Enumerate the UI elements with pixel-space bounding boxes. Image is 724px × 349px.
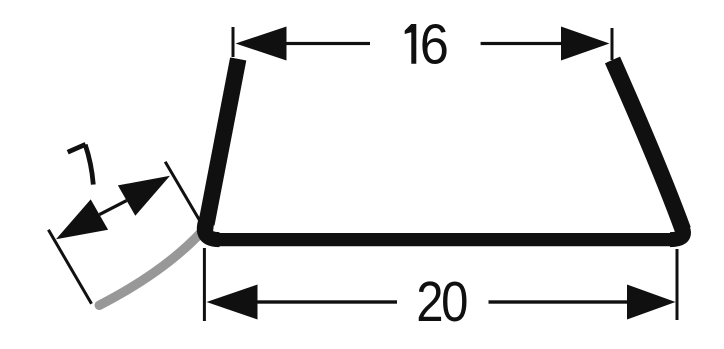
dimension 16: label [405,12,449,77]
dimension 20: right extension tick [676,249,679,320]
profile spine: legs, bottom web and corners [204,59,684,240]
svg-text:0: 0 [441,271,468,334]
dimension 16: right arrow [561,27,610,61]
dimension 16: left line segment [287,42,371,45]
svg-text:6: 6 [420,12,449,77]
dimension 20: label [416,271,468,334]
dimension 16: right extension tick [611,28,614,60]
dimension 20: right line segment [489,300,628,303]
profile left leg [206,59,238,224]
profile left corner [204,215,219,240]
dimension 16: left arrow [236,27,287,61]
dimension 7: label (drawn as strokes) [68,144,94,184]
dimension 16: right line segment [481,42,561,45]
profile right corner [670,214,683,239]
dimension 20: left extension tick [203,248,206,321]
dimension 20: left arrow [207,285,258,320]
left inner corner patch [205,212,215,234]
dimension 16: left extension tick [232,27,235,57]
gray sealing lip [99,232,202,306]
dimension 20: left line segment [258,300,398,303]
dimension 7: upper extension tick [165,162,200,221]
dimension 7: lower-left arrow [56,199,108,239]
dimension 7: lower extension tick [48,230,91,304]
dimension 20: right arrow [627,285,676,320]
svg-text:2: 2 [416,271,443,334]
profile right leg [613,60,684,230]
dimension 7: upper-right arrow [118,176,170,216]
dimension 7: mid line segment [99,201,126,215]
